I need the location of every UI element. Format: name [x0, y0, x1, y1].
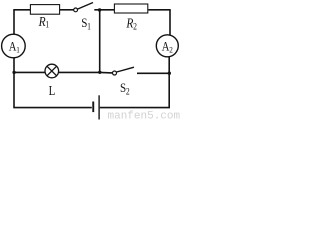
wire: [14, 71, 45, 73]
wire: [99, 10, 101, 73]
ammeter A1: [2, 34, 26, 58]
svg-text:S2: S2: [120, 80, 130, 96]
svg-text:R2: R2: [125, 16, 136, 32]
wire: [100, 107, 170, 109]
wire: [137, 72, 169, 74]
node left junction: [12, 71, 15, 74]
wire: [59, 71, 100, 73]
svg-text:R1: R1: [38, 14, 49, 30]
wire: [60, 9, 74, 11]
wire: [13, 9, 30, 11]
svg-text:S1: S1: [81, 15, 91, 32]
lamp L: [45, 64, 59, 78]
resistor R2: [114, 4, 147, 13]
battery: [92, 95, 99, 119]
node middle junction: [98, 71, 101, 74]
wire: [94, 9, 114, 11]
svg-text:L: L: [49, 83, 56, 99]
wire: [168, 57, 170, 108]
node top junction: [98, 8, 101, 11]
wire: [13, 10, 15, 35]
switch S2: [113, 67, 135, 75]
node right junction: [168, 72, 171, 75]
wire: [148, 9, 170, 11]
wire: [169, 10, 171, 35]
ammeter A2: [156, 35, 178, 57]
resistor R1: [30, 5, 59, 15]
switch S1: [74, 3, 93, 12]
wire: [13, 107, 92, 109]
svg-text:manfen5.com: manfen5.com: [108, 110, 181, 120]
wire: [100, 71, 113, 74]
wire: [13, 58, 15, 108]
